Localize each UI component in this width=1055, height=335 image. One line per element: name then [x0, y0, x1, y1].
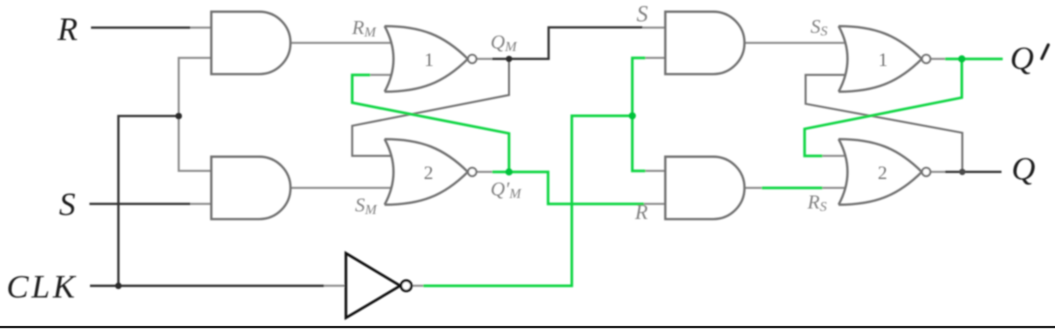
- svg-text:Q: Q: [1012, 152, 1036, 188]
- svg-text:R: R: [634, 200, 648, 224]
- svg-text:1: 1: [424, 50, 434, 71]
- svg-text:2: 2: [424, 163, 434, 184]
- svg-text:R: R: [57, 12, 78, 48]
- svg-text:1: 1: [878, 50, 888, 71]
- svg-text:CLK: CLK: [7, 270, 78, 306]
- svg-text:S: S: [637, 1, 649, 26]
- svg-text:S: S: [59, 187, 76, 223]
- svg-text:2: 2: [878, 163, 888, 184]
- svg-text:Q: Q: [1010, 41, 1034, 77]
